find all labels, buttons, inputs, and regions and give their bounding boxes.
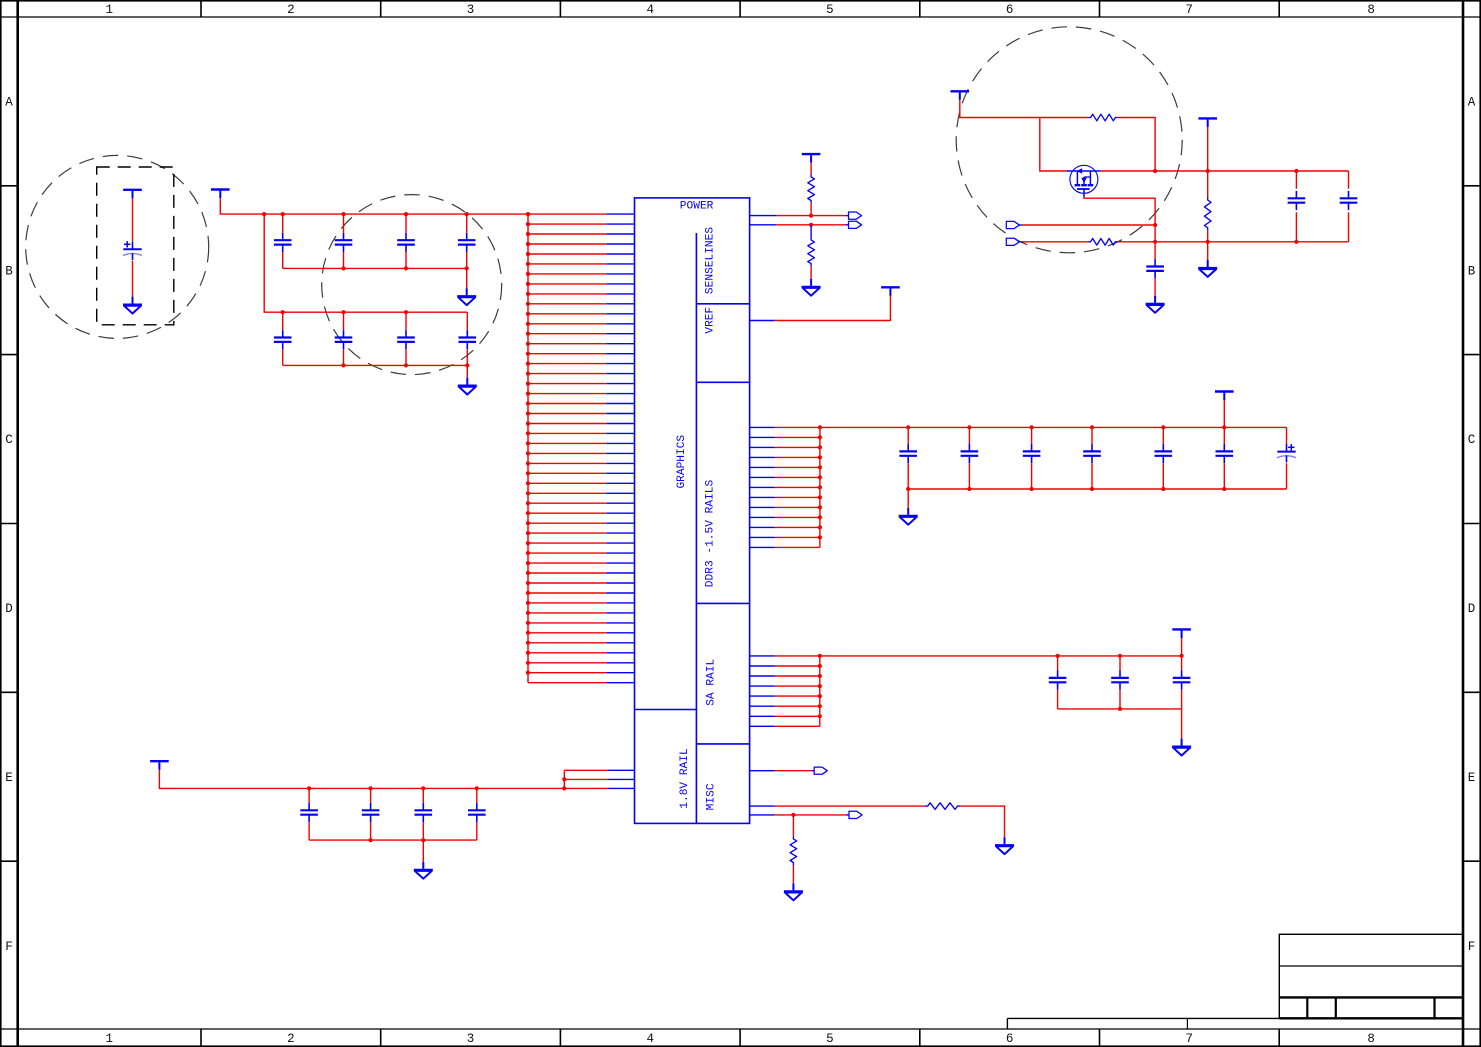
wire R1 bottom lead [810,203,812,216]
capacitor C3 [397,233,415,252]
block section label 1.8V RAIL [679,748,691,809]
wire C11 bottom lead [1031,463,1033,489]
svg-text:1: 1 [106,3,114,17]
wire net CTRL2 left [1022,241,1088,243]
wire C6 bottom lead [343,349,345,365]
capacitor C4 [458,233,476,252]
wire net MISC_A [775,770,812,772]
transistor Q1 (P-channel MOSFET) [1066,165,1100,197]
wire R4 top lead [792,815,794,837]
capacitor C9 [899,444,917,463]
capacitor C20 [362,803,380,822]
annotation circle 1 (review bubble, area B1) [26,155,209,338]
wire VIN to Q1 source [1040,118,1067,172]
annotation circle 2 (review bubble, area B2-B3) [322,195,502,375]
junction dots top rail [262,212,469,216]
wire C23 top lead [1295,171,1297,189]
svg-text:C: C [5,433,13,447]
resistor R4 [790,836,797,865]
junction dots SA collector [818,654,822,719]
power symbol PWR6 (SA rail source) [1172,629,1191,638]
junction dots row2 rail [281,310,409,314]
U1 MISC pins (3) [750,771,775,815]
capacitor C16 [1049,671,1067,690]
off-page connector CTRL1 port [1006,221,1022,228]
wire C17 top lead [1119,656,1121,671]
capacitor C14 [1216,444,1234,463]
junction dots 1.8V ground rail [369,838,426,842]
wire C12 bottom lead [1091,463,1093,489]
wire C5 bottom lead [282,349,284,365]
wire 1.8V pin collector [563,770,565,788]
ground GND9 [784,883,803,900]
wire net V1P5_DDR rail [820,426,1287,428]
wire net V1P8 rail [159,770,564,789]
junction dots row1 ground rail [341,266,468,270]
resistor R6 [1088,239,1118,246]
wire net CTRL1 [1022,224,1155,226]
wire C4 top lead [466,214,468,233]
polarized capacitor C15 bulk [1277,444,1296,462]
off-page connector SENSE+ port [846,212,862,219]
ground GND2 [458,378,477,395]
off-page connector SENSE- port [846,221,862,228]
wire C18 top lead [1181,656,1183,671]
capacitor C21 [415,803,433,822]
svg-text:7: 7 [1186,1032,1194,1046]
svg-text:3: 3 [467,1032,475,1046]
wire SA ground rail [1058,708,1182,710]
junction dots SA rail [1056,654,1184,658]
off-page connector MISC_A port [811,767,827,774]
resistor R5 [1088,114,1118,121]
wire bus vertical left pin collector [527,214,529,683]
ground GND10 [1146,296,1165,313]
svg-text:F: F [5,940,13,954]
wire C21 top lead [422,788,424,803]
wire R2 to ground [810,266,812,279]
wire C0 top lead [132,198,134,241]
capacitor C7 [397,330,415,349]
wire C4 bottom lead [466,252,468,268]
wire C16 top lead [1057,656,1059,671]
power symbol PWR3 (sense pullup) [802,154,821,163]
wire PWR8 stem [1207,127,1209,171]
capacitor C13 [1155,444,1173,463]
svg-text:5: 5 [826,3,834,17]
power symbol PWR9 (+V bulk cap) [123,190,142,199]
wire R5 to drain [1118,118,1155,172]
off-page connector MISC_C port [846,811,862,818]
wire R4 to ground [792,865,794,883]
capacitor C6 [335,330,353,349]
capacitor C1 [274,233,292,252]
ground GND6 [1172,739,1191,756]
wire C10 bottom lead [968,463,970,489]
wire net GATE [1084,197,1155,242]
wire C1 bottom lead [282,252,284,268]
U1 SENSELINES pins (2) [750,216,776,225]
junction dots DDR rail [906,425,1226,429]
wire 1.8V ground rail [309,839,477,841]
power symbol PWR1 (+V rail top-left) [211,190,230,199]
wire C24 top lead [1348,171,1350,189]
wire C18 bottom lead [1181,690,1183,709]
ground GND5 [899,508,918,525]
capacitor C22 [1146,259,1164,278]
svg-text:E: E [1468,771,1476,785]
wire net SENSE+ [776,215,846,217]
junction dots VOUT rail [1153,169,1299,173]
wire row2 to ground [466,365,468,377]
off-page connector CTRL2 port [1006,238,1022,245]
resistor R2 [808,237,815,266]
svg-text:4: 4 [646,3,654,17]
capacitor C10 [961,444,979,463]
wire C2 top lead [343,214,345,233]
wire row1 ground rail [283,267,467,269]
wire net VIN top [960,100,1088,118]
resistor R7 [925,803,960,810]
junction dots 1.8V collector [562,777,566,790]
svg-text:B: B [1468,264,1476,278]
wire net V1P5 top rail [220,198,528,214]
ground GND3 [802,279,821,296]
wire net VOUT drain rail [1101,170,1349,172]
wire C7 top lead [405,312,407,330]
wire DDR to ground [907,489,909,508]
wire net VREF [775,296,891,321]
U1 SA rail pins (8) [750,656,820,726]
wire R3 bottom lead [1207,230,1209,260]
power symbol PWR2 (1.8V source) [150,761,169,770]
svg-text:2: 2 [287,3,295,17]
capacitor C18 [1173,671,1191,690]
wire SA pin collector [819,656,821,726]
svg-text:D: D [5,602,13,616]
svg-text:7: 7 [1186,3,1194,17]
wire C15 top lead [1286,427,1288,444]
capacitor C17 [1111,671,1129,690]
U1 1.8V RAIL pins (3) [564,770,634,788]
capacitor C2 [335,233,353,252]
block section label SA RAIL [706,659,718,706]
block label GRAPHICS [676,435,688,489]
wire C12 top lead [1091,427,1093,444]
svg-text:4: 4 [646,1032,654,1046]
wire PWR6 stem [1181,638,1183,656]
wire net CTRL2 right [1118,241,1155,243]
svg-text:MISC: MISC [705,783,717,810]
svg-text:3: 3 [467,3,475,17]
wire C7 bottom lead [405,349,407,365]
wire C13 bottom lead [1162,463,1164,489]
svg-text:GRAPHICS: GRAPHICS [676,435,688,489]
svg-text:D: D [1468,602,1476,616]
annotation dashed box around C1 [97,167,174,325]
wire net MISC_C [775,814,846,816]
svg-text:B: B [5,264,13,278]
wire C22 bottom lead [476,822,478,840]
svg-text:1: 1 [106,1032,114,1046]
svg-text:VREF: VREF [705,307,717,334]
capacitor C19 [300,803,318,822]
junction dots row2 ground rail [341,363,469,367]
block section label SENSELINES [705,227,717,294]
wire C17 bottom lead [1119,690,1121,709]
power symbol PWR4 (VREF source) [881,287,900,296]
svg-text:DDR3 -1.5V RAILS: DDR3 -1.5V RAILS [704,480,716,588]
svg-text:SA RAIL: SA RAIL [706,659,718,706]
wire C1 top lead [282,214,284,233]
wire C5 top lead [282,312,284,330]
junction dots sense lines [809,214,813,227]
wire net MISC_B left [775,805,926,807]
wire R1 top lead [810,163,812,175]
resistor R3 [1204,198,1211,231]
wire C13 top lead [1162,427,1164,444]
svg-text:1.8V RAIL: 1.8V RAIL [679,748,691,809]
wire row1 to ground [466,268,468,288]
ground GND1 [457,288,476,305]
block section label VREF [705,307,717,334]
svg-text:E: E [5,771,13,785]
wire C22 top lead [1154,242,1156,259]
hierarchical block U1 GRAPHICS [635,198,750,824]
capacitor C8 [459,330,477,349]
svg-text:A: A [5,96,13,110]
U1 VREF pin [750,320,775,322]
svg-text:6: 6 [1006,3,1014,17]
svg-text:SENSELINES: SENSELINES [705,227,717,294]
ground GND8 [995,837,1014,854]
svg-text:5: 5 [826,1032,834,1046]
wire C14 bottom lead [1223,463,1225,489]
wire VOUT return rail [1155,241,1348,243]
junction dots DDR3 collector [818,425,822,539]
wire net MISC_B right [960,806,1005,837]
capacitor C24 [1340,191,1358,210]
wire C15 bottom lead [1286,463,1288,489]
capacitor C23 [1288,191,1306,210]
svg-text:POWER: POWER [680,200,714,212]
wire C2 bottom lead [343,252,345,268]
capacitor C22 [468,803,486,822]
wire C19 top lead [308,788,310,803]
wire C20 bottom lead [370,822,372,840]
wire C8 bottom lead [466,349,468,365]
wire C16 bottom lead [1057,690,1059,709]
junction dots gate column [1153,223,1157,244]
svg-text:2: 2 [287,1032,295,1046]
junction dots DDR ground rail [906,487,1226,491]
block section label DDR3 -1.5V RAILS [704,480,716,588]
ground GND11 [1198,260,1217,277]
block section label POWER [680,200,714,212]
polarized capacitor C0 bulk [123,241,142,260]
wire C3 top lead [405,214,407,233]
wire C22 top lead [476,788,478,803]
capacitor C12 [1083,444,1101,463]
wire C6 top lead [343,312,345,330]
junction dots return rail [1206,240,1299,244]
power symbol PWR8 (pull source) [1198,118,1217,127]
svg-text:F: F [1468,940,1476,954]
wire row2 ground rail [283,364,468,366]
resistor R1 [808,174,815,203]
wire C0 bottom lead [132,261,134,297]
wire C24 bottom lead [1348,212,1350,242]
junction dots 1.8V rail [307,786,479,790]
wire C9 bottom lead [907,463,909,489]
power symbol PWR5 (DDR rail source) [1215,392,1234,401]
annotation circle 3 (review bubble, area A6-A7) [956,27,1182,253]
capacitor C5 [274,330,292,349]
svg-text:8: 8 [1367,1032,1375,1046]
wire row2 feed [264,214,467,312]
wire R3 top lead [1207,171,1209,198]
svg-text:C: C [1468,433,1476,447]
svg-text:6: 6 [1006,1032,1014,1046]
U1 DDR3 rail pins (13) [750,427,820,547]
wire C23 bottom lead [1295,212,1297,242]
wire SA to ground [1181,709,1183,739]
wire PWR5 stem [1223,400,1225,427]
wire DDR ground rail [908,488,1286,490]
wire C21 bottom lead [422,822,424,840]
junction dot MISC_C [791,813,795,817]
U1 left power pins (48) with stubs [528,214,635,683]
block section label MISC [705,783,717,810]
wire C3 bottom lead [405,252,407,268]
wire C8 top lead [466,312,468,330]
junction dot SA ground rail [1118,707,1122,711]
ground GND4 [123,297,142,314]
capacitor C11 [1023,444,1041,463]
wire net SENSE- [776,224,846,226]
wire C14 top lead [1223,427,1225,444]
wire 1.8V to ground [422,840,424,862]
wire C22 to ground [1154,278,1156,296]
wire DDR3 pin collector [819,427,821,547]
power symbol PWR7 (input supply) [951,91,970,100]
wire C19 bottom lead [308,822,310,840]
svg-text:8: 8 [1367,3,1375,17]
wire C11 top lead [1031,427,1033,444]
svg-text:A: A [1468,96,1476,110]
wire C20 top lead [370,788,372,803]
wire C10 top lead [968,427,970,444]
wire net VSA rail [820,655,1182,657]
wire C9 top lead [907,427,909,444]
ground GND7 [414,862,433,879]
junction dots on left pin collector [526,212,530,675]
